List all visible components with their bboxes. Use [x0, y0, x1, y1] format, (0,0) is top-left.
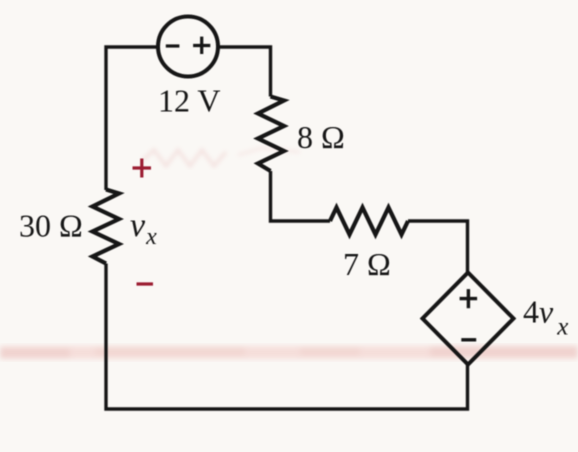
resistor 7Ω [330, 208, 408, 235]
dependent source + sign [460, 289, 478, 308]
polarity − of vx [137, 282, 154, 285]
resistor 8Ω [258, 97, 284, 172]
pink scan artifact zigzag bleed [143, 148, 300, 166]
svg-text:8 Ω: 8 Ω [297, 119, 345, 155]
svg-text:vx: vx [130, 207, 157, 250]
svg-text:7 Ω: 7 Ω [343, 246, 391, 282]
pink scan artifact band bottom [0, 346, 578, 359]
dependent source 4vx diamond [423, 273, 514, 365]
voltage source + sign [193, 37, 210, 54]
svg-text:12 V: 12 V [158, 83, 221, 119]
resistor 30Ω [93, 190, 120, 264]
wire 8Ω bottom to 7Ω left [271, 171, 331, 221]
wire 7Ω right to diamond top [408, 221, 468, 273]
polarity + of vx [133, 159, 152, 178]
dependent source − sign [461, 338, 476, 341]
wire left lower + bottom + right lower [106, 264, 468, 410]
wire top-left + left upper [106, 47, 158, 190]
svg-text:4vx: 4vx [523, 294, 568, 341]
voltage source − sign [166, 44, 180, 47]
wire top-right + right-column upper [218, 47, 271, 97]
voltage source 12V circle [158, 17, 218, 77]
svg-text:30 Ω: 30 Ω [19, 208, 83, 244]
